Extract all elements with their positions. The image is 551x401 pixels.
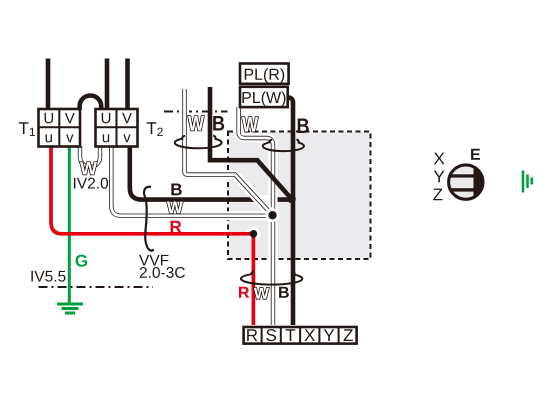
junction node R [250, 230, 258, 238]
cable loop symbol left [175, 136, 222, 149]
label B upper-left wire [213, 116, 224, 130]
label E [471, 149, 480, 160]
dash-dot boundary line bottom (earth) [39, 286, 154, 288]
terminal block T1 [39, 109, 81, 147]
label G [76, 255, 87, 267]
label W jumper loop [80, 162, 97, 174]
dash-dot boundary line top [164, 111, 228, 113]
VVF cable run curve [144, 187, 154, 251]
wire W from PL(W) to terminal S [239, 107, 273, 325]
supply wire stub above T2-V [125, 59, 130, 111]
motor connector symbol [446, 162, 486, 203]
label R bottom [239, 287, 249, 298]
label T2 [147, 122, 163, 136]
label T1 [19, 122, 35, 136]
jumper arch from T1-V to T2-U [80, 96, 102, 111]
label W PL(W) wire [242, 117, 258, 131]
wire R from T1-u to terminal R [51, 148, 253, 326]
wire W from upper device to node W [185, 89, 273, 215]
wire B from T2-v to node B [130, 148, 292, 200]
junction node R halo [246, 227, 260, 241]
label B bottom [279, 287, 289, 298]
indicator box PL(R) [240, 64, 289, 84]
earth symbol right (rotated ground) [523, 171, 532, 193]
wire B from upper device to node B [210, 87, 292, 199]
junction node W [266, 208, 280, 222]
label Y [434, 171, 445, 183]
indicator box PL(W) [240, 87, 288, 107]
terminal block RSTXYZ [244, 327, 357, 344]
supply wire stub above T2-U [105, 59, 110, 111]
label IV2.0 [74, 178, 108, 189]
junction node B [287, 195, 295, 203]
wire G from T1-v to ground [68, 148, 71, 304]
label R middle [171, 221, 182, 233]
label Z [433, 189, 442, 201]
label W upper-left wire [188, 116, 204, 130]
wire B from PL(W) to terminal T [285, 98, 293, 325]
label W middle [167, 202, 183, 214]
terminal block T2 [96, 109, 138, 147]
wire crossing gap on B horizontal [255, 195, 278, 204]
label B PL(W) wire [298, 119, 309, 133]
label 2.0-3C [140, 267, 185, 278]
controller dashed box [228, 132, 371, 260]
label B middle [171, 184, 181, 196]
wire W from T2-u to node W [111, 148, 272, 216]
label X [434, 153, 445, 165]
ground symbol [57, 304, 83, 313]
label VVF [139, 255, 168, 266]
cable loop symbol bottom [241, 271, 302, 284]
cable loop symbol right [263, 140, 304, 152]
white jumper loop W between T1-v and T2-u [80, 146, 100, 167]
supply wire stub above T1-U [46, 59, 51, 111]
label W bottom [254, 288, 269, 299]
label IV5.5 [31, 271, 65, 282]
